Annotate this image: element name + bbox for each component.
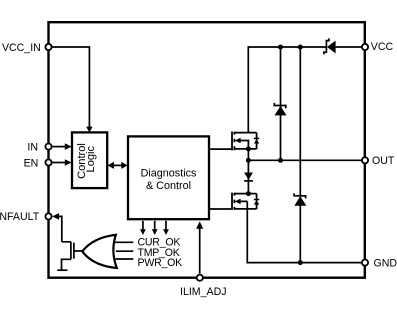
- junction OUT line / FET source: [246, 158, 251, 163]
- junction VCC rail / zener1: [278, 45, 283, 50]
- terminal IN: [45, 144, 51, 150]
- body diode of lower MOSFET: [254, 200, 259, 205]
- series diode between FETs: [244, 173, 253, 181]
- terminal OUT: [362, 157, 368, 163]
- svg-text:VCC_IN: VCC_IN: [2, 42, 41, 54]
- wire IN to Control Logic: [52, 146, 67, 148]
- upper pass MOSFET: [232, 132, 257, 151]
- arrow ILIM_ADJ into Diagnostics: [196, 221, 203, 273]
- bidirectional arrow Control Logic to Diagnostics: [108, 162, 128, 169]
- wire OUT line: [248, 159, 361, 161]
- terminal VCC_IN: [45, 44, 51, 50]
- ground tick at fault FET source: [57, 269, 67, 271]
- body diode of upper MOSFET: [254, 138, 259, 143]
- wire VCC_IN to Control Logic top: [52, 47, 89, 128]
- svg-text:GND: GND: [374, 257, 397, 269]
- lower sense MOSFET: [232, 193, 257, 210]
- svg-text:EN: EN: [24, 157, 39, 169]
- terminal GND: [362, 260, 368, 266]
- svg-text:ILIM_ADJ: ILIM_ADJ: [180, 286, 227, 298]
- arrowhead IN: [65, 143, 72, 150]
- junction lower FET drain: [246, 191, 251, 196]
- wire OR gate input TMP_OK: [116, 250, 133, 252]
- arrowhead EN: [65, 159, 72, 166]
- wire gate drive to upper FET: [209, 148, 231, 150]
- wire OR gate input CUR_OK: [115, 241, 134, 243]
- svg-text:VCC: VCC: [371, 41, 394, 53]
- arrow Diagnostics to PWR_OK: [163, 221, 169, 235]
- wire EN to Control Logic: [52, 162, 67, 164]
- arrow Diagnostics to TMP_OK: [152, 221, 158, 235]
- device boundary box: [49, 22, 365, 278]
- Diagnostics and Control block: [128, 136, 209, 219]
- wire gate drive to lower FET: [209, 208, 231, 210]
- junction upper MOSFET source: [246, 146, 251, 151]
- zener diode VCC to GND: [294, 193, 306, 206]
- svg-text:NFAULT: NFAULT: [0, 211, 40, 223]
- svg-text:Diagnostics: Diagnostics: [141, 168, 197, 180]
- svg-text:& Control: & Control: [146, 180, 191, 192]
- svg-text:PWR_OK: PWR_OK: [138, 257, 183, 269]
- wire lower FET source to GND: [247, 201, 361, 262]
- svg-text:Logic: Logic: [85, 145, 97, 172]
- junction OUT line / zener1: [278, 158, 283, 163]
- terminal NFAULT: [45, 213, 51, 219]
- schottky diode at VCC: [324, 38, 336, 54]
- wire upper MOSFET source to OUT junction: [247, 149, 249, 160]
- junction GND line / zener2: [298, 260, 303, 265]
- wire clamp zener branch VCC to OUT: [280, 47, 282, 160]
- wire OUT junction to series diode: [247, 160, 249, 193]
- terminal VCC: [362, 44, 368, 50]
- wire clamp zener branch VCC to GND: [299, 47, 301, 263]
- arrow Diagnostics to CUR_OK: [140, 221, 146, 235]
- Control Logic block: [72, 132, 107, 188]
- svg-text:IN: IN: [27, 141, 38, 153]
- fault output MOSFET: [62, 242, 83, 270]
- junction VCC rail / zener2: [298, 45, 303, 50]
- terminal ILIM_ADJ: [197, 275, 203, 281]
- wire fault FET drain to NFAULT: [57, 216, 62, 241]
- wire OR gate input PWR_OK: [116, 258, 134, 260]
- wire VCC rail: [248, 47, 361, 133]
- terminal EN: [45, 159, 51, 165]
- arrow into Control Logic top: [86, 127, 92, 133]
- OR gate for fault signals: [82, 235, 117, 268]
- arrowhead NFAULT: [52, 213, 59, 220]
- svg-text:OUT: OUT: [372, 155, 395, 167]
- zener diode VCC to OUT: [274, 103, 286, 116]
